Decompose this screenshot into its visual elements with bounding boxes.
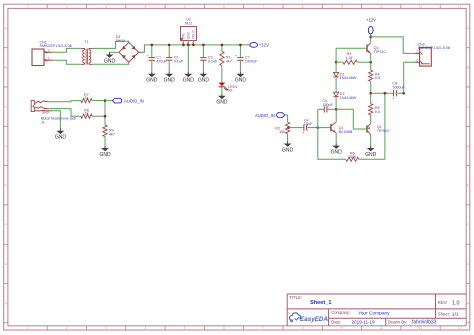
capacitor C4 xyxy=(303,124,305,130)
junction rail-R1 xyxy=(221,44,224,47)
svg-text:3: 3 xyxy=(105,326,107,330)
capacitor C2 xyxy=(166,57,172,59)
ground R9 xyxy=(104,146,106,148)
svg-text:1k: 1k xyxy=(85,112,89,116)
svg-text:AUDIO_IN: AUDIO_IN xyxy=(124,99,144,104)
junction rail-U3 pin2 xyxy=(187,44,190,47)
resistor R1 xyxy=(220,51,224,65)
junction CN2 riser xyxy=(402,92,405,95)
junction audio node xyxy=(287,126,290,129)
wire Q2 collector to ground xyxy=(370,134,372,145)
svg-text:4: 4 xyxy=(144,326,146,330)
svg-text:Sheet:: Sheet: xyxy=(438,311,450,316)
resistor R6 xyxy=(346,157,359,161)
wire T1 bottom to D4 xyxy=(93,62,129,64)
svg-text:2: 2 xyxy=(48,48,50,52)
svg-text:2: 2 xyxy=(66,326,68,330)
transistor Q3 xyxy=(366,45,368,52)
svg-text:GND: GND xyxy=(331,149,343,155)
svg-text:0.1uF: 0.1uF xyxy=(208,59,218,63)
svg-text:SMKDSP1.5/2-5.08: SMKDSP1.5/2-5.08 xyxy=(40,44,72,48)
svg-text:Your Company: Your Company xyxy=(358,310,390,316)
svg-text:GND: GND xyxy=(365,152,377,158)
svg-text:9: 9 xyxy=(341,326,343,330)
svg-text:8: 8 xyxy=(302,5,304,9)
resistor R2 xyxy=(286,122,290,134)
svg-text:AUDIO_IN: AUDIO_IN xyxy=(255,113,275,118)
wire R2 to ground xyxy=(287,134,289,141)
svg-text:3: 3 xyxy=(105,5,107,9)
wire riser to CN2 pin2 xyxy=(404,62,415,93)
ground LED1 xyxy=(221,94,223,96)
diode D2 xyxy=(334,92,339,96)
wire Q3 base xyxy=(336,47,367,49)
svg-text:TITLE:: TITLE: xyxy=(290,295,303,300)
wire CN1 pin2 to T1 xyxy=(53,48,81,52)
wire C3 to ground xyxy=(202,60,204,71)
wire LED1 to ground xyxy=(221,87,223,94)
svg-text:0.5: 0.5 xyxy=(375,110,380,114)
wire +12V to CN2 pin1 xyxy=(371,37,415,54)
svg-text:5: 5 xyxy=(184,326,186,330)
wire C8 to CN2 riser xyxy=(397,92,404,94)
svg-text:2: 2 xyxy=(416,58,418,62)
svg-text:10k: 10k xyxy=(279,130,285,134)
svg-text:11: 11 xyxy=(419,326,423,330)
transformer T1 xyxy=(83,50,85,53)
svg-text:VIN: VIN xyxy=(182,33,186,39)
svg-text:GND: GND xyxy=(216,100,228,106)
resistor R3 xyxy=(343,60,357,64)
junction node-R7 xyxy=(104,99,107,102)
power flag +12V (rail) xyxy=(250,43,258,48)
ground at bridge xyxy=(109,52,111,54)
svg-text:11: 11 xyxy=(419,5,423,9)
wire CN1 pin1 to T1 xyxy=(53,60,81,64)
junction Q1 collector node xyxy=(335,108,338,111)
wire R3 left stub xyxy=(336,61,343,63)
svg-text:1N4148W: 1N4148W xyxy=(340,96,357,100)
capacitor C8 xyxy=(393,90,395,96)
svg-text:6: 6 xyxy=(223,326,225,330)
svg-text:J1: J1 xyxy=(41,120,45,124)
wire R6 to feedback riser xyxy=(359,93,385,159)
svg-text:1.2k: 1.2k xyxy=(346,56,353,60)
ground Q1 xyxy=(335,143,337,145)
resistor R8 xyxy=(81,114,92,118)
wire T1 top to D4 xyxy=(93,41,129,48)
LED LED1 xyxy=(219,83,226,87)
ground U3 xyxy=(187,72,189,74)
wire rail to R1 xyxy=(221,45,223,51)
svg-text:F: F xyxy=(467,223,469,227)
svg-text:7: 7 xyxy=(262,326,264,330)
wire C5 right xyxy=(327,108,336,110)
bridge rectifier D4 xyxy=(119,42,139,62)
wire 12V rail xyxy=(152,44,250,46)
svg-text:1: 1 xyxy=(27,5,29,9)
wire J1 tip to R7 xyxy=(47,101,81,102)
svg-text:TIP31C: TIP31C xyxy=(374,50,387,54)
svg-text:GND: GND xyxy=(198,78,210,84)
svg-text:RL: RL xyxy=(228,89,233,93)
wire J1 sleeve to ground xyxy=(52,111,60,129)
regulator U3 body xyxy=(181,27,197,41)
headphone jack J1 xyxy=(31,101,34,112)
svg-text:12: 12 xyxy=(458,326,462,330)
ground C2 xyxy=(168,72,170,74)
title block grid xyxy=(287,293,466,295)
svg-text:8: 8 xyxy=(302,326,304,330)
svg-text:4: 4 xyxy=(144,5,146,9)
wire +12V to Q3 collector xyxy=(370,37,372,42)
svg-text:SMKDSP1.5/2-5.08: SMKDSP1.5/2-5.08 xyxy=(418,46,450,50)
net flag AUDIO_IN (jack) xyxy=(105,100,113,102)
wire base node to Q1 xyxy=(318,127,331,129)
EasyEDA logo xyxy=(289,313,300,321)
svg-text:Date:: Date: xyxy=(331,319,341,324)
svg-text:G: G xyxy=(467,262,470,266)
capacitor C3 xyxy=(200,57,206,59)
svg-text:5: 5 xyxy=(184,5,186,9)
svg-text:10: 10 xyxy=(379,5,383,9)
svg-text:GND: GND xyxy=(164,78,176,84)
wire D2 to collector node xyxy=(335,98,337,110)
svg-text:4k7: 4k7 xyxy=(226,59,232,63)
wire C1 to ground xyxy=(151,61,153,72)
svg-text:10uF: 10uF xyxy=(304,122,313,126)
svg-text:Sheet_1: Sheet_1 xyxy=(310,300,331,306)
svg-text:0.1uF: 0.1uF xyxy=(174,59,184,63)
wire rail to C7 xyxy=(239,45,241,58)
junction rail-C2 xyxy=(168,44,171,47)
svg-text:12: 12 xyxy=(458,5,462,9)
wire U3 gnd pin down xyxy=(187,45,189,72)
svg-text:GND: GND xyxy=(42,111,50,115)
wire C2 to ground xyxy=(168,60,170,71)
wire rail to C2 xyxy=(168,45,170,58)
wire R1 to LED1 xyxy=(221,66,223,83)
junction +12V node xyxy=(369,36,372,39)
wire J1 ring to R8 xyxy=(47,109,81,117)
svg-text:Company:: Company: xyxy=(331,310,350,315)
svg-text:REV:: REV: xyxy=(438,300,448,305)
svg-text:GND: GND xyxy=(146,78,158,84)
wire R4 to output node xyxy=(370,81,372,103)
svg-text:0.5: 0.5 xyxy=(375,76,380,80)
wire D4 left to ground xyxy=(110,51,119,53)
resistor R7 xyxy=(81,99,92,103)
svg-text:7: 7 xyxy=(262,5,264,9)
capacitor C1 xyxy=(149,57,155,59)
wire Q3 base chain top xyxy=(335,48,337,62)
svg-text:GND: GND xyxy=(99,152,111,158)
svg-text:1k: 1k xyxy=(85,96,89,100)
wire D4 to rail xyxy=(142,45,152,52)
svg-text:4k7: 4k7 xyxy=(109,132,115,136)
ground C1 xyxy=(151,72,153,74)
svg-text:G: G xyxy=(4,262,7,266)
junction R3 left xyxy=(335,61,338,64)
ground R2 xyxy=(287,141,289,143)
wire R9 to ground xyxy=(104,137,106,146)
svg-text:1: 1 xyxy=(27,326,29,330)
junction rail-U3 pin1 xyxy=(182,44,185,47)
svg-text:Drawn By:: Drawn By: xyxy=(388,319,407,324)
svg-text:1N4148W: 1N4148W xyxy=(340,76,357,80)
capacitor C7 xyxy=(237,57,243,59)
junction rail-C3 xyxy=(202,44,205,47)
wire C7 to ground xyxy=(239,61,241,72)
ground C7 xyxy=(239,72,241,74)
wire C4 to Q1 base xyxy=(307,127,318,129)
svg-text:150k: 150k xyxy=(348,155,356,159)
svg-text:1/1: 1/1 xyxy=(452,312,459,318)
wire node to C4 xyxy=(289,127,304,129)
svg-text:1: 1 xyxy=(48,56,50,60)
svg-text:GND: GND xyxy=(183,78,195,84)
svg-text:GND: GND xyxy=(282,147,294,153)
svg-text:1.0: 1.0 xyxy=(452,300,460,306)
svg-text:2019-11-19: 2019-11-19 xyxy=(352,319,376,324)
wire rail to C3 xyxy=(202,45,204,58)
ground J1 xyxy=(59,129,61,131)
wire R5 to Q2 emitter xyxy=(370,115,372,124)
wire D1 to D2 xyxy=(335,78,337,92)
wire audio node vertical xyxy=(104,101,106,125)
junction node-R8 xyxy=(104,115,107,118)
resistor R5 xyxy=(369,104,373,115)
transistor Q2 xyxy=(366,125,368,132)
svg-text:470uF: 470uF xyxy=(156,59,167,63)
svg-text:fahminlb33: fahminlb33 xyxy=(412,320,437,326)
svg-text:EasyEDA: EasyEDA xyxy=(300,316,328,323)
svg-text:GND: GND xyxy=(55,135,67,141)
svg-text:T1: T1 xyxy=(84,40,88,44)
wire link to Q2 base xyxy=(336,109,367,129)
junction Q1 base node xyxy=(317,126,320,129)
junction R3 right xyxy=(369,61,372,64)
junction rail-U3 pin3 xyxy=(192,44,195,47)
svg-text:150pF: 150pF xyxy=(322,103,333,107)
border ruler ticks xyxy=(46,4,48,8)
svg-text:6: 6 xyxy=(223,5,225,9)
resistor R9 xyxy=(103,125,107,137)
junction rail-C1 xyxy=(151,44,154,47)
connector CN2 xyxy=(420,48,432,67)
svg-text:9: 9 xyxy=(341,5,343,9)
wire Q1 collector xyxy=(335,109,337,122)
wire to D1 xyxy=(335,62,337,72)
svg-text:10: 10 xyxy=(379,326,383,330)
svg-text:GND: GND xyxy=(104,58,116,64)
capacitor C5 xyxy=(323,106,325,112)
wire C5 left xyxy=(318,108,325,110)
ground C3 xyxy=(202,72,204,74)
resistor R4 xyxy=(369,70,373,81)
transistor Q1 xyxy=(330,124,332,131)
svg-text:7812: 7812 xyxy=(184,21,192,25)
wire base node up to C5 xyxy=(317,109,319,127)
svg-text:VOUT: VOUT xyxy=(192,30,196,39)
svg-text:GND: GND xyxy=(235,78,247,84)
junction rail-C7 xyxy=(239,44,242,47)
junction feedback xyxy=(384,92,387,95)
svg-text:F: F xyxy=(5,223,7,227)
svg-text:Black headphone jack: Black headphone jack xyxy=(41,116,76,120)
ground Q2 xyxy=(370,146,372,148)
wire audio-in down xyxy=(287,115,289,122)
svg-text:BC548B: BC548B xyxy=(339,130,353,134)
svg-text:2W10: 2W10 xyxy=(116,39,125,43)
wire R8 to node xyxy=(92,115,105,117)
svg-text:TIP32C: TIP32C xyxy=(377,129,390,133)
junction output node xyxy=(369,92,372,95)
svg-text:+12V: +12V xyxy=(366,17,376,22)
wire Q1 emitter to ground xyxy=(335,133,337,143)
connector CN1 xyxy=(32,49,44,66)
diode D1 xyxy=(334,72,339,76)
wire rail to C1 xyxy=(151,45,153,58)
svg-text:+12V: +12V xyxy=(259,43,269,48)
svg-text:1000uF: 1000uF xyxy=(245,59,258,63)
wire Q3 emitter down xyxy=(370,54,372,71)
wire base node down to R6 xyxy=(318,128,346,160)
wire R3 right stub xyxy=(357,61,371,63)
wire output to C8 xyxy=(371,92,394,94)
svg-text:2: 2 xyxy=(66,5,68,9)
svg-text:GND: GND xyxy=(187,31,191,39)
wire R7 to node xyxy=(92,100,105,102)
